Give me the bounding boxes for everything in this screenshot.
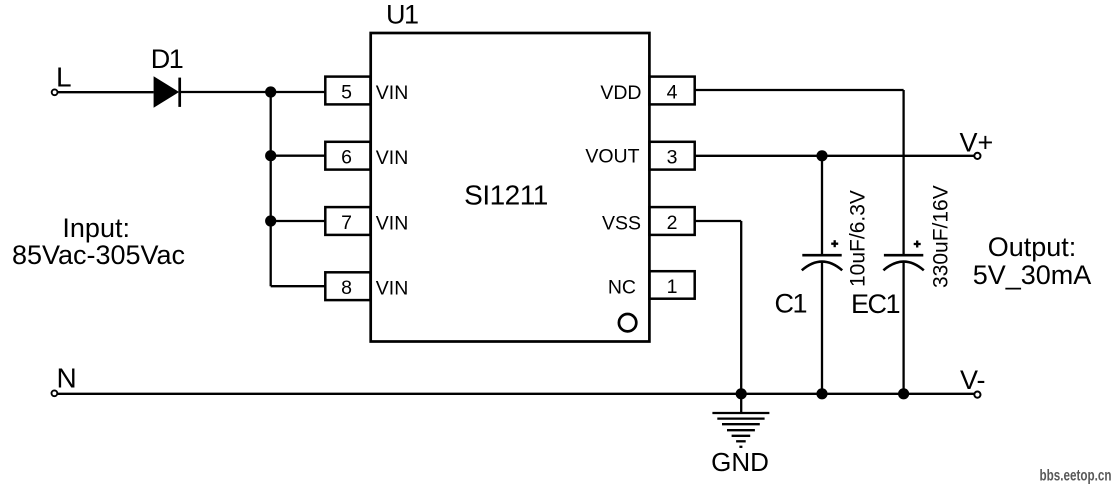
- svg-text:VIN: VIN: [376, 212, 409, 234]
- wire VSS pin2 horizontal: [695, 220, 742, 222]
- pin 3 box: [649, 142, 694, 170]
- junction C1 / N: [816, 388, 827, 399]
- ground GND symbol: [712, 394, 769, 447]
- wire VIN bus vertical: [270, 92, 272, 286]
- wire C1 bottom: [821, 262, 823, 394]
- svg-text:4: 4: [667, 82, 678, 104]
- svg-text:VIN: VIN: [376, 147, 409, 169]
- svg-text:330uF/16V: 330uF/16V: [930, 185, 953, 288]
- terminal L: [52, 89, 58, 95]
- svg-text:6: 6: [341, 147, 352, 169]
- wire C1 top: [821, 156, 823, 255]
- pin 6 box: [325, 142, 370, 170]
- svg-text:V+: V+: [960, 127, 994, 157]
- capacitor EC1: [883, 255, 923, 270]
- svg-text:7: 7: [341, 212, 352, 234]
- svg-text:2: 2: [667, 212, 678, 234]
- svg-text:5V_30mA: 5V_30mA: [973, 260, 1092, 290]
- svg-text:Output:: Output:: [988, 232, 1077, 262]
- C1 polarity +: [831, 240, 838, 247]
- svg-text:VSS: VSS: [602, 212, 641, 234]
- svg-text:5: 5: [341, 82, 352, 104]
- wire VOUT pin3 to V+: [695, 155, 975, 157]
- wire L to D1 anode: [58, 91, 154, 93]
- diode D1: [154, 76, 180, 107]
- svg-text:1: 1: [667, 276, 678, 298]
- junction pin 6 row: [265, 150, 276, 161]
- junction pin 7 row: [265, 215, 276, 226]
- terminal V-: [974, 392, 980, 398]
- svg-text:Input:: Input:: [62, 213, 130, 243]
- pin 7 box: [325, 207, 370, 235]
- pin 8 box: [325, 272, 370, 300]
- svg-text:U1: U1: [386, 0, 418, 29]
- pin 5 box: [325, 77, 370, 105]
- svg-text:EC1: EC1: [851, 289, 900, 319]
- wire D1 cathode to pin 5: [181, 91, 325, 93]
- terminal V+: [974, 153, 980, 159]
- svg-text:D1: D1: [151, 44, 183, 74]
- EC1 polarity +: [914, 241, 921, 248]
- junction VOUT / C1: [816, 150, 827, 161]
- wire stub to pin 7: [271, 220, 326, 222]
- svg-text:L: L: [56, 61, 72, 92]
- svg-text:V-: V-: [960, 365, 986, 395]
- terminal N: [52, 390, 58, 396]
- svg-text:85Vac-305Vac: 85Vac-305Vac: [12, 240, 185, 270]
- wire VSS down to N line: [740, 221, 742, 394]
- svg-text:GND: GND: [711, 447, 769, 477]
- pin 4 box: [649, 77, 694, 105]
- svg-text:N: N: [57, 363, 77, 394]
- pin 2 box: [649, 207, 694, 235]
- svg-text:10uF/6.3V: 10uF/6.3V: [847, 190, 870, 287]
- junction EC1 / N: [898, 388, 909, 399]
- svg-text:8: 8: [341, 277, 352, 299]
- junction VSS / N: [736, 388, 747, 399]
- wire N line: [58, 393, 975, 395]
- capacitor C1: [802, 255, 842, 270]
- wire EC1 bottom: [902, 262, 904, 394]
- svg-text:NC: NC: [608, 276, 636, 298]
- svg-text:bbs.eetop.cn: bbs.eetop.cn: [1039, 466, 1111, 484]
- pin-1 indicator circle: [619, 314, 636, 331]
- svg-text:VIN: VIN: [376, 82, 409, 104]
- wire VDD down to EC1 top: [902, 90, 904, 255]
- svg-text:SI1211: SI1211: [464, 179, 548, 210]
- svg-text:VDD: VDD: [600, 82, 641, 104]
- wire stub to pin 8: [271, 285, 326, 287]
- junction on L line: [265, 86, 276, 97]
- wire stub to pin 6: [271, 155, 326, 157]
- wire VDD pin4 to EC1 (horizontal): [695, 89, 904, 91]
- svg-text:C1: C1: [775, 289, 807, 319]
- op-amp U1 body (IC SI1211): [371, 33, 650, 342]
- pin 1 box: [649, 271, 694, 299]
- svg-text:VIN: VIN: [376, 278, 409, 300]
- svg-text:3: 3: [667, 147, 678, 169]
- svg-text:VOUT: VOUT: [585, 146, 639, 168]
